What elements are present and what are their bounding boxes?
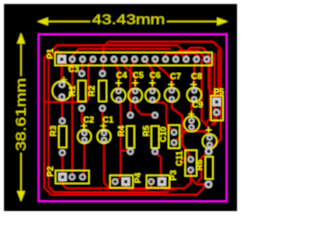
wire stubs into C11 top — [180, 159, 185, 162]
wire C8 bottom to C9 — [192, 99, 195, 120]
wire pad14 stub — [206, 60, 208, 63]
wire V4 down — [202, 60, 210, 130]
connector P1 outline — [55, 52, 212, 65]
connector P5 — [211, 87, 224, 121]
svg-text:C11: C11 — [174, 151, 184, 166]
resistor R1 — [67, 70, 86, 112]
resistor R5 — [141, 112, 159, 155]
wire R6 top down left col — [198, 151, 209, 181]
wire hook3 pad11 — [176, 51, 203, 57]
svg-text:R4: R4 — [116, 125, 126, 136]
wire R1 bottom to C2 — [82, 108, 85, 133]
wire horizontal under C3 — [44, 101, 86, 103]
wire pin 9 to C6 — [145, 60, 153, 91]
wire P2 pin1 down to B2 — [63, 180, 67, 188]
wire pin to C8 — [194, 60, 196, 90]
wire pin2 down to P2 — [71, 60, 73, 177]
svg-text:C2: C2 — [83, 115, 94, 125]
wire V3b right of P5 — [207, 56, 210, 123]
capacitor C5 — [128, 70, 144, 103]
wire V5 to P5 square — [217, 50, 219, 96]
wire R3 bottom to P2 pin1 — [61, 153, 63, 177]
wire inner left vertical — [49, 51, 169, 193]
connector P3 — [147, 170, 178, 188]
canvas background — [4, 4, 237, 211]
red copper traces — [44, 42, 221, 195]
capacitor C7 — [165, 71, 182, 102]
capacitor C1 — [97, 115, 114, 144]
wire P4 square to P3 round — [126, 183, 151, 189]
connector P2 — [45, 166, 89, 183]
wire hook2 pad12 to P5 square — [186, 48, 217, 98]
wire bus to capX top — [182, 130, 196, 132]
wire V2 down — [212, 54, 215, 125]
wire pin3 to R1 — [81, 60, 84, 74]
resistor R6 — [194, 147, 213, 188]
wire R2 bottom to C1 — [103, 108, 105, 133]
resistor R4 — [116, 112, 134, 155]
resistor R2 — [87, 70, 107, 112]
svg-text:P4: P4 — [132, 173, 142, 184]
capacitor C9 — [184, 100, 203, 132]
wire pin to C7 — [155, 60, 172, 90]
wire C10 bottom diag to bus — [174, 133, 184, 143]
wire C3 bottom to R3 — [61, 97, 63, 121]
wire outline left+bottom — [44, 45, 203, 195]
wire top bus second — [72, 49, 170, 56]
dimension 38.61mm vertical — [18, 34, 25, 201]
svg-text:38.61mm: 38.61mm — [13, 78, 29, 151]
svg-text:C8: C8 — [191, 71, 202, 81]
capacitor C8 — [187, 71, 202, 102]
wire pad4 down col — [86, 60, 93, 102]
svg-text:C3: C3 — [68, 64, 79, 74]
capacitor C6 — [145, 70, 160, 103]
wire junction to R4 bottom — [121, 150, 131, 153]
wire pin1 to C3 — [61, 60, 63, 85]
svg-text:C4: C4 — [116, 70, 127, 80]
svg-text:C9: C9 — [192, 100, 203, 110]
connector P4 — [110, 173, 142, 188]
wire capX bottom to R6 — [208, 145, 211, 152]
wire hook4 pad10 — [166, 53, 200, 58]
wire pin 6 to C4 — [114, 60, 119, 91]
svg-text:R1: R1 — [67, 85, 77, 96]
svg-text:P1: P1 — [45, 48, 55, 59]
wire bottom bus B2 — [67, 172, 191, 188]
wire hook1 top long to right V1 — [104, 42, 221, 152]
svg-text:R5: R5 — [141, 125, 151, 136]
svg-text:C10: C10 — [158, 126, 168, 142]
wire C5 bottom to R5 top — [135, 100, 155, 116]
wire top mid line to 182 col — [57, 45, 182, 56]
wire C9 bottom to capX — [192, 127, 210, 136]
wire C2 bottom down — [83, 140, 85, 177]
svg-text:43.43mm: 43.43mm — [92, 11, 165, 27]
wire C11 bottom to R6 bottom — [191, 170, 209, 184]
wire P3 square down — [162, 183, 175, 189]
svg-text:C5: C5 — [133, 70, 144, 80]
wire pin1 diag to pad2 — [65, 63, 72, 71]
svg-text:C7: C7 — [170, 71, 181, 81]
capacitor C12 unlabeled — [202, 127, 216, 148]
capacitor C2 — [78, 115, 95, 144]
svg-text:C1: C1 — [103, 115, 114, 125]
wire P5 round down — [213, 112, 217, 125]
svg-text:P2: P2 — [45, 166, 55, 177]
capacitor C11 — [174, 150, 197, 176]
board outline magenta — [39, 34, 227, 201]
capacitor C3 — [52, 64, 79, 101]
wire C7 bottom down mid col — [172, 99, 191, 159]
capacitor C10 — [158, 125, 180, 148]
connector P1 pads — [57, 55, 210, 64]
svg-text:R3: R3 — [48, 125, 58, 136]
resistor R3 — [48, 118, 67, 157]
wire pin5 to R2 — [103, 60, 104, 74]
wire R5 bottom down to P3 — [155, 152, 162, 177]
wire pad8 down to R4 top — [130, 62, 134, 115]
svg-text:R2: R2 — [87, 85, 97, 96]
wire C4 col down to P4 — [115, 100, 121, 182]
capacitor C4 — [112, 70, 128, 103]
svg-text:R6: R6 — [194, 159, 204, 170]
svg-text:C6: C6 — [150, 70, 161, 80]
wire C1 bottom down — [104, 140, 110, 188]
dimension 43.43mm horizontal — [39, 18, 227, 25]
wire pin 7 to C5 — [124, 60, 135, 91]
wire C6 bottom jog to C10 — [152, 100, 174, 133]
